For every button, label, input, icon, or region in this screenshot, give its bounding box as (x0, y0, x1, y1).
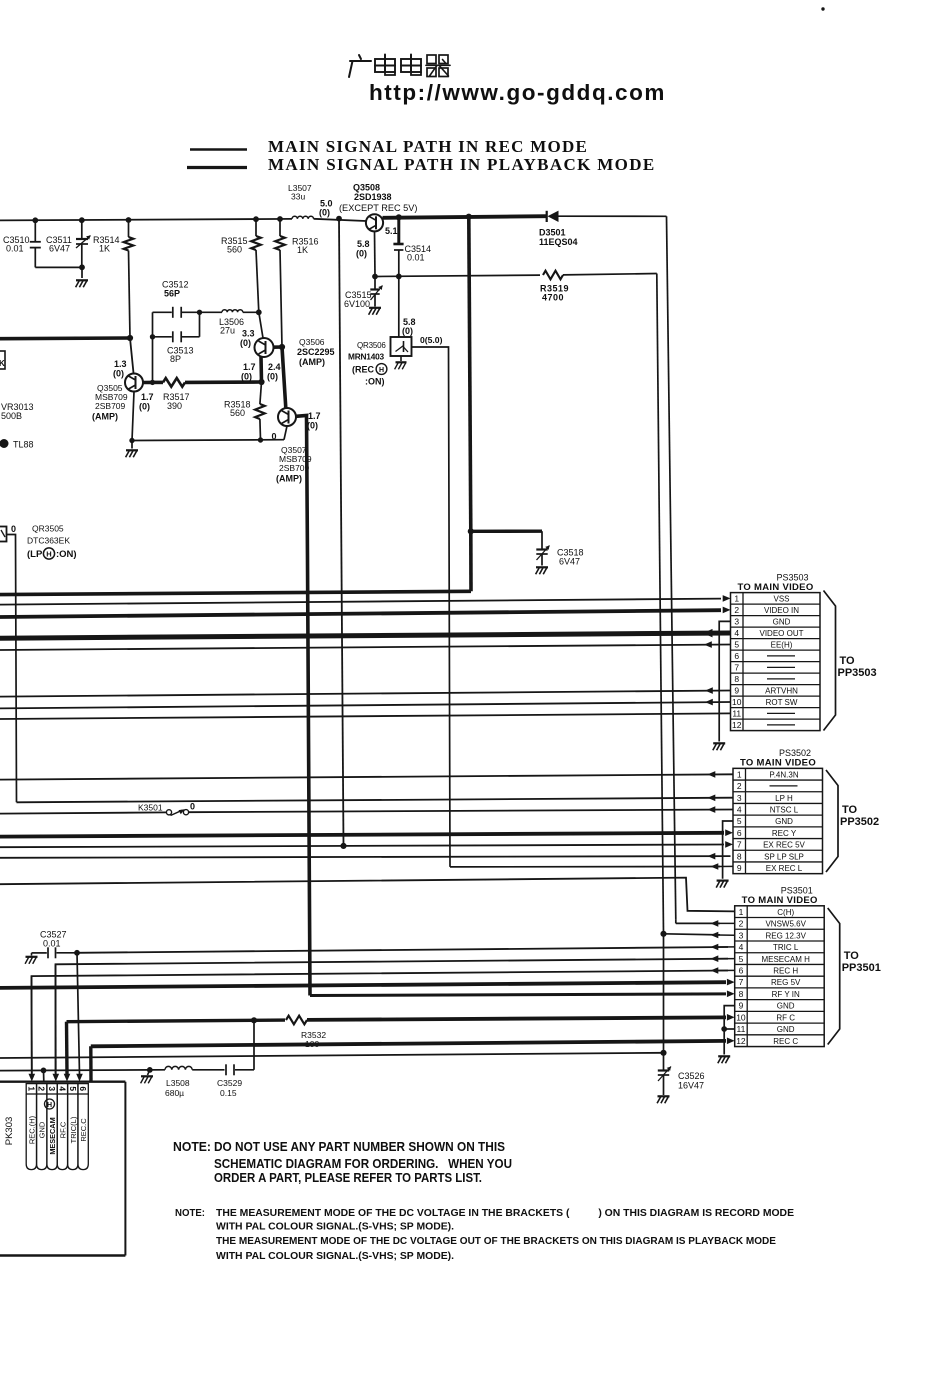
svg-text:REG 12.3V: REG 12.3V (765, 931, 806, 940)
label 5.8 (0) above QR3506 (402, 317, 416, 336)
wire VSS line (0, 599, 721, 605)
svg-text:REC.C: REC.C (79, 1118, 88, 1142)
svg-text:REC Y: REC Y (772, 829, 797, 838)
wire Q3505 emitter thick row (143, 381, 153, 385)
label C3515 6V100 (344, 290, 372, 309)
legend line playback mode (187, 166, 247, 169)
wire 5V top rail (0, 219, 292, 221)
svg-text:8: 8 (734, 674, 739, 684)
label QR3506 MRN1403 (REC H ON) (348, 341, 387, 387)
arrow into PS3501 pin12 thick (727, 1038, 735, 1045)
svg-text:5: 5 (737, 816, 742, 826)
svg-text:PK303: PK303 (4, 1117, 15, 1146)
wire TRIC L line (77, 947, 728, 953)
svg-text:http://www.go-gddq.com: http://www.go-gddq.com (369, 80, 666, 105)
svg-text:5: 5 (734, 640, 739, 650)
svg-text:4: 4 (734, 628, 739, 638)
connector PS3503 pin numbers and labels (732, 594, 804, 731)
capacitor C3518 (electrolytic) (536, 531, 547, 565)
wire Q3506 emitter to base node thick (259, 357, 263, 383)
label L3507 33u (288, 183, 312, 202)
wire VIDEO OUT line very thick (0, 633, 731, 638)
label TO PP3502 (840, 804, 879, 828)
wire PK303 pin5 drop (77, 953, 80, 1074)
svg-text:4: 4 (57, 1086, 67, 1091)
arrow on VIDEO OUT pointing left (703, 629, 713, 638)
inductor L3508 (150, 1066, 225, 1069)
wire R3519 to right elbow (563, 274, 657, 275)
svg-text:TL88: TL88 (13, 440, 34, 450)
svg-text:NOTE:: NOTE: (173, 1139, 211, 1154)
node Q3506 base node (259, 379, 264, 384)
wire bottom row (132, 439, 284, 442)
svg-text:2SC2295: 2SC2295 (297, 347, 335, 357)
wire R3532 to PS3501 pin10 thick (307, 1017, 726, 1020)
svg-text:DTC363EK: DTC363EK (27, 536, 70, 546)
svg-text:6V100: 6V100 (344, 299, 370, 309)
label 1.7 (0) left (241, 362, 256, 382)
node PK303 pin2 tap (41, 1068, 46, 1073)
svg-text:REC.(H): REC.(H) (27, 1115, 36, 1144)
label R3532 100 (301, 1030, 326, 1049)
svg-text:PS3501: PS3501 (781, 886, 813, 896)
wire to R3517 (153, 381, 164, 385)
svg-text:GND: GND (38, 1121, 47, 1138)
svg-text:10: 10 (736, 1012, 746, 1022)
arrow on ROT SW pointing left (705, 699, 713, 706)
svg-text:Q3506: Q3506 (299, 337, 325, 347)
arrow on P4N3N pointing left (708, 771, 716, 778)
svg-text:TO: TO (844, 950, 860, 962)
wire RF Y IN row thick (310, 994, 726, 996)
label 1.7 (0) at Q3507 (307, 411, 321, 431)
svg-text:(0): (0) (307, 421, 318, 431)
wire Q3507 output riser thick (307, 416, 311, 996)
svg-text:(AMP): (AMP) (276, 474, 302, 484)
label R3517 390 (163, 392, 190, 411)
wire VNSW net vertical (667, 216, 676, 920)
svg-text:1: 1 (739, 907, 744, 917)
wire R3519 net lower vertical (663, 934, 665, 1053)
svg-text:MAIN SIGNAL PATH IN REC MODE: MAIN SIGNAL PATH IN REC MODE (268, 137, 588, 156)
svg-text:H: H (379, 367, 384, 374)
svg-text:0: 0 (11, 524, 16, 534)
label VR3013 500B (1, 402, 34, 421)
svg-text:SP LP SLP: SP LP SLP (764, 852, 804, 861)
svg-text:VIDEO OUT: VIDEO OUT (759, 629, 803, 638)
svg-text:NOTE:: NOTE: (175, 1208, 205, 1219)
ground left of C3527 (25, 953, 37, 964)
node R3514 Q3505 junction (127, 335, 132, 340)
wire Q3507 emitter right thick (296, 414, 307, 418)
wire NTSC L line left part (0, 812, 167, 813)
svg-text:EX REC 5V: EX REC 5V (763, 841, 805, 850)
svg-text:REG 5V: REG 5V (771, 978, 801, 987)
svg-text:3: 3 (737, 793, 742, 803)
capacitor C3511 polarity arrow (76, 236, 91, 249)
svg-text:(0): (0) (267, 372, 278, 382)
svg-text:QR3506: QR3506 (357, 341, 386, 350)
node thick rail riser tap (466, 214, 471, 219)
svg-text:MRN1403: MRN1403 (348, 352, 385, 362)
wire Q3506 collector right thick (273, 345, 282, 349)
transistor Q3507 (278, 408, 296, 426)
node ground tap on bus (147, 1068, 152, 1073)
label C3529 0.15 (217, 1078, 242, 1098)
label R3516 1K (292, 237, 319, 256)
svg-text:RF Y IN: RF Y IN (772, 990, 800, 999)
svg-text:56P: 56P (164, 289, 180, 299)
svg-text:6: 6 (734, 651, 739, 661)
arrow into PS3503 pin2 thick (723, 607, 731, 614)
site name chinese text 广电电器 (drawn strokes) (349, 55, 450, 78)
svg-text:(0): (0) (319, 208, 330, 218)
wire to Q3505 top (130, 338, 134, 374)
svg-text:VNSW5.6V: VNSW5.6V (765, 920, 806, 929)
connector PS3502 box (733, 768, 823, 873)
wire EX REC 5V line (0, 845, 724, 848)
wire REC C row thick (91, 1041, 726, 1046)
wire REC C riser thick (89, 1046, 93, 1081)
svg-text:C(H): C(H) (777, 908, 794, 917)
wire C3518 branch thick (471, 530, 542, 533)
svg-text:K: K (0, 359, 5, 368)
node thick rail C3514 tap (396, 215, 401, 220)
svg-text:(LP: (LP (27, 549, 43, 560)
relay switch K3501 (166, 809, 188, 815)
svg-text:PP3503: PP3503 (838, 667, 877, 679)
ground below PS3502 (716, 881, 728, 888)
svg-text:1.7: 1.7 (308, 411, 321, 421)
node rail junction R3514 (126, 218, 131, 223)
capacitor C3518 polarity arrow (537, 546, 550, 561)
capacitor C3512 (153, 307, 200, 318)
svg-text:0.01: 0.01 (6, 244, 24, 254)
svg-text:2: 2 (739, 919, 744, 929)
svg-text:ORDER A PART, PLEASE REFER TO: ORDER A PART, PLEASE REFER TO PARTS LIST… (214, 1170, 482, 1185)
svg-text:EE(H): EE(H) (771, 641, 793, 650)
svg-text:6V47: 6V47 (49, 244, 70, 254)
wire collector node down to Q3507 thick (282, 347, 286, 408)
node RF C junction (251, 1018, 256, 1023)
capacitor C3514 (393, 217, 403, 276)
svg-text:4: 4 (737, 805, 742, 815)
svg-text:PP3501: PP3501 (842, 962, 881, 974)
label C3513 8P (167, 346, 194, 365)
wire rail to Q3508 (314, 219, 366, 221)
resistor R3519 (543, 271, 563, 280)
svg-text:390: 390 (167, 401, 182, 411)
svg-text:RF C: RF C (776, 1013, 795, 1022)
label 1.7 (0) at Q3505 (139, 392, 154, 412)
ground below PS3501 (718, 1056, 730, 1063)
svg-text:Q3508: Q3508 (353, 183, 380, 193)
svg-text:MESECAM H: MESECAM H (761, 955, 810, 964)
arrow on MESECAM H pointing left (711, 955, 719, 962)
node Q3505 bottom (130, 438, 134, 442)
node rail junction C3511 (79, 218, 84, 223)
wire EE(H) line (0, 645, 731, 651)
node Q3506 collector (279, 344, 284, 349)
svg-text:6: 6 (78, 1086, 88, 1091)
wire RF C riser thick (65, 1022, 69, 1074)
arrow into PS3501 pin2 (711, 920, 719, 927)
wire LP H line (17, 798, 734, 803)
ground below C3515 (369, 308, 381, 315)
wire base row to R3519 (375, 275, 540, 276)
svg-text:1.3: 1.3 (114, 359, 127, 369)
wire REC Y line thick (0, 833, 724, 837)
note 1 ordering (173, 1139, 512, 1185)
arrow into PK303 pin1 (29, 1074, 36, 1082)
wire bottom row right leg up (284, 426, 287, 440)
wire EXREC5V riser from rail (339, 219, 344, 846)
svg-text:H: H (46, 550, 51, 559)
wire R3519 net vertical (657, 274, 664, 934)
label Q3508 2SD1938 (EXCEPT REC 5V) (339, 183, 417, 214)
svg-text::ON): :ON) (56, 549, 77, 560)
svg-text:0.01: 0.01 (407, 253, 425, 263)
label R3519 4700 (540, 284, 569, 303)
svg-text:27u: 27u (220, 326, 235, 336)
svg-text:WITH PAL COLOUR SIGNAL.(S-VHS;: WITH PAL COLOUR SIGNAL.(S-VHS; SP MODE). (216, 1250, 454, 1262)
svg-text:8: 8 (737, 851, 742, 861)
capacitor C3515 polarity arrow (371, 286, 383, 301)
svg-text:(0): (0) (241, 372, 252, 382)
svg-text:C3529: C3529 (217, 1078, 242, 1088)
label L3508 680u (165, 1078, 190, 1098)
wire Q3506 top stub (259, 312, 263, 338)
svg-text:P.4N.3N: P.4N.3N (769, 770, 798, 779)
svg-text:8: 8 (739, 989, 744, 999)
svg-text:7: 7 (739, 977, 744, 987)
ground below QR3506 (395, 356, 407, 369)
ground below C3518 (536, 567, 548, 574)
svg-text:DO NOT USE ANY PART NUMBER SHO: DO NOT USE ANY PART NUMBER SHOWN ON THIS (214, 1139, 505, 1154)
svg-text:1: 1 (734, 594, 739, 604)
svg-text:SCHEMATIC DIAGRAM FOR ORDERING: SCHEMATIC DIAGRAM FOR ORDERING. WHEN YOU (214, 1156, 512, 1171)
svg-text:ARTVHN: ARTVHN (765, 687, 798, 696)
svg-text:C3526: C3526 (678, 1071, 705, 1081)
capacitor C3515 (electrolytic) (370, 277, 379, 307)
node C3518 tap (468, 529, 473, 534)
svg-text:PS3503: PS3503 (777, 573, 809, 583)
svg-text:THE MEASUREMENT MODE OF THE DC: THE MEASUREMENT MODE OF THE DC VOLTAGE O… (216, 1235, 776, 1247)
svg-text:(0): (0) (139, 402, 150, 412)
arrow on LP H pointing left (708, 795, 716, 802)
switching transistor QR3506 box (391, 276, 412, 356)
svg-text:TO MAIN VIDEO: TO MAIN VIDEO (737, 582, 813, 593)
resistor R3517 (163, 378, 185, 387)
label C3511 6V47 (46, 235, 72, 254)
wire REG 12.3V feed (664, 934, 721, 935)
ground below Q3505 (126, 441, 138, 458)
capacitor C3529 (226, 1020, 254, 1075)
svg-text:560: 560 (227, 245, 242, 255)
svg-text:QR3505: QR3505 (32, 524, 64, 534)
svg-text:GND: GND (777, 1002, 795, 1011)
svg-text:5.1: 5.1 (385, 226, 398, 236)
svg-text:2SB709: 2SB709 (95, 401, 126, 411)
svg-text:TRIC L: TRIC L (773, 943, 799, 952)
capacitor C3511 (electrolytic) (76, 220, 88, 267)
svg-text:6V47: 6V47 (559, 557, 580, 567)
connector PS3501 title (742, 886, 818, 907)
svg-text:12: 12 (736, 1036, 746, 1046)
wire REC H line (32, 971, 729, 1074)
label QR3505 DTC363EK (LP H ON) (27, 524, 77, 561)
svg-text:10: 10 (732, 697, 742, 707)
svg-text:GND: GND (775, 817, 793, 826)
capacitor C3526 polarity arrow (658, 1067, 671, 1082)
node rail junction R3516 (278, 217, 283, 222)
node rail junction R3515 (254, 217, 259, 222)
svg-text:GND: GND (777, 1025, 795, 1034)
svg-text:11EQS04: 11EQS04 (539, 237, 578, 247)
label L3506 27u (219, 317, 244, 336)
svg-text:EX REC L: EX REC L (766, 864, 803, 873)
connector PS3503 brace (824, 591, 836, 731)
wire EXRECL into PS3502 pin9 (450, 866, 720, 868)
wire P.4N.3N line (0, 774, 733, 779)
diode D3501 (547, 211, 559, 222)
arrow into PS3501 pin3 (711, 932, 719, 939)
svg-text:3: 3 (739, 930, 744, 940)
label C3518 6V47 (557, 548, 584, 567)
label R3514 1K (93, 235, 120, 254)
wire VIDEO IN line thick (0, 610, 721, 617)
wire ROT SW line (0, 702, 731, 708)
resistor R3514 (124, 220, 134, 338)
node base row C3514 (396, 274, 401, 279)
svg-text:680µ: 680µ (165, 1088, 184, 1098)
arrow into PS3503 pin1 (723, 595, 731, 602)
node base row left (373, 274, 378, 279)
legend line rec mode (190, 148, 247, 151)
svg-text:(EXCEPT REC 5V): (EXCEPT REC 5V) (339, 203, 417, 213)
svg-text:L3508: L3508 (166, 1078, 190, 1088)
svg-text:PS3502: PS3502 (779, 748, 811, 758)
svg-text:(0): (0) (113, 369, 124, 379)
svg-text:2SD1938: 2SD1938 (354, 192, 392, 202)
svg-text:6: 6 (739, 966, 744, 976)
transistor Q3506 (255, 338, 274, 357)
svg-text:(0): (0) (240, 338, 251, 348)
svg-text:(AMP): (AMP) (299, 357, 325, 367)
connector PS3502 pin numbers and labels (737, 769, 806, 873)
arrow into PS3501 pin7 thick (727, 979, 735, 986)
arrow into PS3502 pin9 (711, 863, 719, 870)
connector PS3501 pin numbers and labels (736, 907, 810, 1046)
arrow into PK303 pin5 (76, 1074, 83, 1082)
wire to R3532 (254, 1018, 285, 1022)
svg-text:5: 5 (68, 1086, 78, 1091)
svg-text:1K: 1K (297, 245, 308, 255)
wire PS3501 pin9 pin11 GND drop (724, 1006, 735, 1055)
arrow on EE(H) pointing left (704, 641, 712, 648)
ground below PS3503 (713, 743, 725, 750)
label C3527 0.01 (40, 930, 67, 949)
wire SP LP SLP line (0, 856, 731, 858)
wire D3501 to right elbow (559, 215, 667, 217)
svg-text:3: 3 (734, 617, 739, 627)
node C3512 L3506 (197, 310, 201, 314)
svg-text:3: 3 (47, 1086, 57, 1091)
svg-text:1K: 1K (99, 244, 110, 254)
wire PS3502 pin5 GND drop (723, 821, 733, 879)
connector PK303 pin header and slots (26, 1084, 88, 1170)
svg-text:3.3: 3.3 (242, 329, 255, 339)
wire main signal input thick (0, 336, 130, 340)
wire QR3506 to EXRECL riser (412, 347, 451, 867)
svg-text:WITH PAL COLOUR SIGNAL.(S-VHS;: WITH PAL COLOUR SIGNAL.(S-VHS; SP MODE). (216, 1221, 454, 1233)
svg-text::ON): :ON) (365, 377, 385, 387)
svg-text:11: 11 (737, 1024, 746, 1034)
arrow on SP LP SLP pointing left (708, 853, 716, 860)
transistor Q3508 (366, 214, 383, 231)
arrow into PS3502 pin7 (725, 841, 733, 848)
wire MESECAM H line (56, 959, 729, 1074)
svg-text:11: 11 (732, 709, 741, 719)
ground below C3511 (76, 280, 88, 287)
wire PS3503 pin3 GND drop (719, 621, 730, 741)
node REG 12.3V tap (661, 931, 666, 936)
svg-text:1: 1 (737, 769, 742, 779)
wire C3510 to C3511 bottom (35, 266, 82, 268)
svg-text:12: 12 (732, 720, 742, 730)
wire R3517 to Q3506 node thick (185, 380, 262, 384)
svg-text:5.8: 5.8 (357, 239, 370, 249)
wire thick riser lower (469, 531, 473, 591)
svg-text:2: 2 (737, 781, 742, 791)
arrow into PS3501 pin8 (727, 991, 735, 998)
svg-text:REC C: REC C (773, 1037, 798, 1046)
label TO PP3503 (838, 655, 877, 679)
resistor R3518 (255, 382, 265, 440)
wire PS3503 pin11 line (0, 713, 731, 719)
node C3526 junction (661, 1050, 666, 1055)
label C3514 0.01 (405, 244, 432, 263)
speck top right (822, 8, 824, 10)
capacitor C3510 (30, 220, 41, 267)
node EXREC5V riser joins line (341, 843, 346, 848)
arrow into PS3502 pin6 thick (725, 829, 733, 836)
node rail junction EXREC5V riser (337, 216, 342, 221)
wire Q3508 base down (374, 231, 377, 276)
wire spare thin line to R3519 net (0, 1053, 664, 1058)
label 5.0 (0) (319, 199, 333, 218)
arrow on REC H pointing left (711, 967, 719, 974)
transistor Q3505 (125, 374, 143, 392)
node C3513 left (150, 335, 154, 339)
svg-text:2: 2 (37, 1086, 47, 1091)
label 5.8 (0) at Q3508 base (356, 239, 370, 259)
svg-text:0(5.0): 0(5.0) (420, 335, 443, 345)
label MESECAM circled H (45, 1099, 55, 1109)
label R3518 560 (224, 400, 251, 419)
svg-text:LP H: LP H (775, 794, 793, 803)
svg-text:7: 7 (734, 663, 739, 673)
svg-text:GND: GND (773, 618, 791, 627)
connector PS3502 title (740, 748, 816, 769)
svg-text:4: 4 (739, 942, 744, 952)
resistor R3516 (275, 219, 285, 347)
svg-text:MESECAM: MESECAM (48, 1117, 57, 1154)
svg-text:K3501: K3501 (138, 803, 163, 813)
svg-text:MAIN SIGNAL PATH IN PLAYBACK M: MAIN SIGNAL PATH IN PLAYBACK MODE (268, 155, 656, 174)
svg-text:2: 2 (734, 605, 739, 615)
svg-text:VSS: VSS (773, 595, 789, 604)
